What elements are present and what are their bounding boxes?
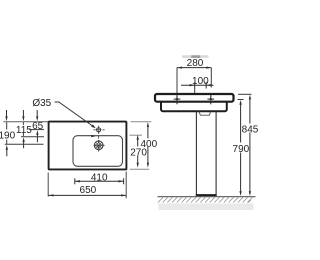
svg-text:190: 190 [0, 131, 16, 142]
gray ground band [159, 203, 254, 210]
outside down-arrow lane 65 [36, 110, 38, 121]
tick rim bottom level [238, 99, 244, 101]
dim 190 line segments [6, 122, 8, 129]
dim 65: tick under text [29, 129, 44, 131]
dim 65 outside up-arrow [36, 130, 38, 142]
bowl [73, 136, 123, 167]
arrow on bowl edge [91, 135, 95, 137]
dim 280 [177, 66, 211, 68]
svg-text:Ø35: Ø35 [32, 98, 51, 109]
top edge extension line [4, 121, 49, 123]
svg-text:845: 845 [242, 124, 259, 135]
floor line [158, 196, 256, 198]
svg-text:115: 115 [16, 125, 32, 136]
dim 410 [75, 178, 124, 184]
dim 845 vertical [249, 95, 251, 196]
rim slab (side) [155, 94, 234, 102]
dim 115 line segments [22, 122, 24, 125]
dim 190: tick (drain level) [5, 143, 44, 145]
leader line Ø35 [55, 102, 94, 126]
dim 270 vertical [137, 135, 139, 168]
wall/faucet gray bar [182, 55, 209, 58]
pedestal [196, 111, 216, 195]
ext 100 left [194, 89, 196, 94]
faucet hole [94, 128, 105, 132]
svg-text:65: 65 [32, 121, 44, 132]
drain symbol [94, 138, 105, 154]
dim 400 vertical [147, 122, 149, 168]
floor hatching [158, 197, 252, 202]
svg-text:410: 410 [91, 172, 108, 183]
ext 280 left [176, 68, 178, 97]
svg-text:790: 790 [233, 144, 250, 155]
tick rim top level [238, 93, 252, 95]
dim 190 outside up-arrow [6, 145, 8, 156]
svg-text:270: 270 [130, 147, 147, 158]
right extension: basin bottom level [130, 168, 149, 170]
pedestal bottom thick edge [196, 194, 217, 196]
hole mark right [207, 95, 214, 104]
basin outline [49, 122, 127, 170]
dim 650 extension lines [47, 173, 49, 197]
trap cover [199, 112, 211, 116]
basin body (side) [161, 101, 227, 111]
ext 280 right [210, 68, 212, 88]
dim 115: tick (bowl-top level) [21, 136, 44, 138]
right extension: bowl top level [130, 134, 143, 136]
dim 650 [48, 194, 126, 196]
right extension: basin top level [131, 121, 152, 123]
centerline faucet to drain [98, 126, 100, 152]
dim 115 outside up-arrow [22, 137, 24, 148]
outside down-arrow lane 190 [5, 110, 7, 121]
hole mark left [174, 95, 181, 104]
outside down-arrow lane 115 [22, 110, 24, 121]
dim 100 [181, 82, 214, 89]
dim 790 vertical [239, 100, 241, 196]
svg-text:650: 650 [80, 185, 97, 196]
